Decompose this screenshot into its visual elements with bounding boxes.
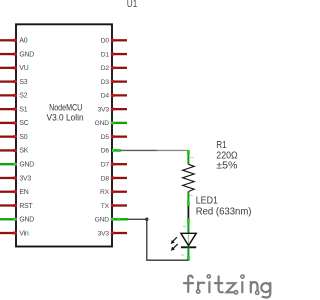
svg-text:GND: GND bbox=[95, 217, 110, 224]
svg-text:RST: RST bbox=[19, 203, 33, 210]
svg-text:±5%: ±5% bbox=[216, 161, 237, 172]
svg-text:VU: VU bbox=[19, 65, 28, 72]
svg-text:GND: GND bbox=[19, 51, 34, 58]
svg-text:V3.0 Lolin: V3.0 Lolin bbox=[47, 113, 84, 123]
svg-text:NodeMCU: NodeMCU bbox=[49, 103, 82, 113]
svg-text:LED1: LED1 bbox=[196, 196, 219, 207]
svg-text:D8: D8 bbox=[101, 175, 110, 182]
svg-text:D4: D4 bbox=[101, 93, 110, 100]
svg-text:GND: GND bbox=[95, 120, 110, 127]
svg-text:D7: D7 bbox=[101, 162, 110, 169]
svg-text:S2: S2 bbox=[19, 93, 27, 100]
svg-text:S1: S1 bbox=[19, 106, 27, 113]
svg-text:D3: D3 bbox=[101, 79, 110, 86]
svg-text:3V3: 3V3 bbox=[98, 106, 110, 113]
svg-text:U1: U1 bbox=[127, 0, 138, 10]
svg-text:Vin: Vin bbox=[19, 230, 29, 237]
svg-text:GND: GND bbox=[19, 217, 34, 224]
svg-text:D1: D1 bbox=[101, 51, 110, 58]
svg-text:3V3: 3V3 bbox=[19, 175, 31, 182]
svg-text:SC: SC bbox=[19, 120, 28, 127]
svg-text:EN: EN bbox=[19, 189, 28, 196]
svg-text:Red (633nm): Red (633nm) bbox=[196, 207, 252, 218]
svg-text:D2: D2 bbox=[101, 65, 110, 72]
svg-text:D0: D0 bbox=[101, 38, 110, 45]
svg-text:A0: A0 bbox=[19, 38, 27, 45]
svg-text:TX: TX bbox=[101, 203, 110, 210]
svg-text:RX: RX bbox=[100, 189, 110, 196]
svg-text:D6: D6 bbox=[101, 148, 110, 155]
svg-text:SK: SK bbox=[19, 148, 28, 155]
svg-text:S3: S3 bbox=[19, 79, 27, 86]
svg-text:D5: D5 bbox=[101, 134, 110, 141]
svg-text:GND: GND bbox=[19, 162, 34, 169]
svg-text:3V3: 3V3 bbox=[98, 230, 110, 237]
svg-text:R1: R1 bbox=[216, 140, 227, 151]
svg-text:S0: S0 bbox=[19, 134, 27, 141]
